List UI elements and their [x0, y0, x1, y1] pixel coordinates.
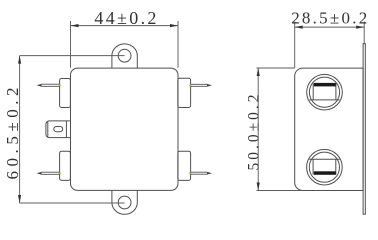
dim 44 dimension line — [71, 25, 179, 27]
terminal block bottom-right — [178, 151, 191, 180]
top mounting hole — [118, 49, 131, 62]
side view mounting plate — [363, 44, 365, 215]
body outline (front view) — [71, 68, 179, 190]
upper receptacle chord — [309, 99, 339, 101]
svg-text:28.5±0.2: 28.5±0.2 — [291, 8, 367, 27]
arrow 28.5 right — [356, 26, 364, 29]
dim 28.5 extension line left — [294, 22, 296, 68]
side view can — [295, 68, 363, 190]
dim 60.5 dimension line — [19, 56, 21, 203]
dim 50.0 extension line top — [257, 67, 295, 69]
spade slot — [54, 127, 63, 132]
terminal block top-left — [60, 79, 71, 108]
spade terminal (quick-connect) — [46, 121, 71, 138]
arrow 44 right — [170, 24, 178, 27]
spade shoulder line — [65, 121, 67, 138]
pin top-right — [189, 84, 191, 86]
arrow 44 left — [71, 24, 79, 27]
dim 28.5 dimension line — [295, 26, 365, 28]
lower receptacle square sides — [313, 159, 336, 174]
upper receptacle pin bar — [314, 83, 336, 87]
arrow 60.5 bottom — [18, 195, 21, 203]
dim 44 extension line left — [70, 21, 72, 68]
upper receptacle square sides — [313, 84, 336, 100]
lower receptacle inner circle — [309, 152, 339, 182]
terminal block top-right — [178, 78, 191, 107]
bottom mounting hole — [118, 196, 131, 209]
dim 60.5 extension line bottom — [20, 202, 125, 204]
dim 44 extension line right — [177, 21, 179, 68]
upper receptacle inner circle — [309, 77, 339, 107]
pin top-left — [59, 84, 61, 86]
dim 60.5 extension line top — [20, 55, 125, 57]
lower receptacle pin bar — [314, 171, 336, 175]
upper receptacle outer circle — [307, 74, 343, 110]
spade flange line — [47, 121, 49, 138]
terminal block bottom-left — [60, 151, 71, 180]
pin bottom-right — [189, 172, 191, 174]
lower receptacle outer circle — [307, 149, 343, 185]
top mounting tab — [112, 44, 137, 68]
arrow 50.0 top — [257, 68, 260, 76]
dim 50.0 extension line bottom — [257, 190, 303, 192]
arrow 28.5 left — [295, 26, 303, 29]
dim 50.0 dimension line — [257, 68, 259, 191]
bottom mounting tab — [112, 190, 137, 214]
pin bottom-left — [59, 172, 61, 174]
arrow 50.0 bottom — [257, 183, 260, 191]
lower receptacle chord — [309, 158, 339, 160]
dim 28.5 extension line right — [363, 22, 365, 44]
arrow 60.5 top — [18, 56, 21, 64]
